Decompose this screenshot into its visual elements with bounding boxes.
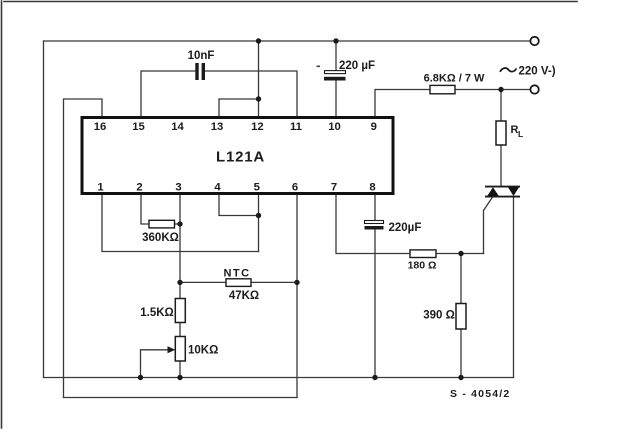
wire 10nF to pin11 <box>205 71 297 117</box>
wire pin9 to R2 and mains terminal <box>375 90 530 118</box>
wire top border of figure <box>4 1 577 3</box>
node pot bottom to bottom rail <box>177 375 182 380</box>
capacitor C2 polarity mark <box>317 66 321 68</box>
svg-text:9: 9 <box>371 121 377 133</box>
svg-text:10nF: 10nF <box>188 50 215 62</box>
node pin8 to bottom rail <box>372 375 377 380</box>
svg-text:S - 4054/2: S - 4054/2 <box>450 388 510 400</box>
triac Q1 bottom bar <box>485 196 520 198</box>
svg-text:15: 15 <box>132 121 145 133</box>
svg-text:47KΩ: 47KΩ <box>229 290 259 302</box>
node NTC right junction <box>294 280 299 285</box>
svg-text:220 V-): 220 V-) <box>519 66 556 78</box>
svg-text:6.8KΩ / 7 W: 6.8KΩ / 7 W <box>424 73 485 85</box>
svg-text:220 µF: 220 µF <box>339 60 375 72</box>
wire pin2 to 360K <box>141 193 149 224</box>
svg-text:L121A: L121A <box>216 149 265 166</box>
mains terminal upper circle <box>530 37 538 45</box>
wire NTC left <box>180 281 226 283</box>
svg-text:16: 16 <box>94 121 107 133</box>
svg-text:10: 10 <box>328 121 341 133</box>
capacitor C3 220uF plates (bottom electrolytic) <box>365 221 384 230</box>
wire pin16 to lower rail 2 (left vertical) <box>64 99 103 398</box>
mains voltage tilde symbol <box>500 68 517 72</box>
node 360K to pin3 <box>177 221 182 226</box>
wire pin8 through C3 to bottom rail <box>374 193 376 378</box>
resistor R1 360K body <box>149 220 175 228</box>
svg-text:1.5KΩ: 1.5KΩ <box>140 307 174 319</box>
wire pin1 to pin5 junction <box>102 193 259 252</box>
svg-text:7: 7 <box>331 182 337 194</box>
svg-text:390 Ω: 390 Ω <box>423 310 455 322</box>
wire pin6 vertical to rail 2 <box>296 193 298 398</box>
wire left outer vertical (top rail to bottom rail) <box>43 41 45 378</box>
wire pin4 bracket to pin5 <box>219 193 259 216</box>
resistor R5 180 ohm body <box>410 250 436 258</box>
wire triac gate <box>484 197 493 254</box>
triac Q1 top bar <box>485 186 520 188</box>
capacitor C1 10nF plates <box>195 63 205 80</box>
wire NTC right to pin6 column <box>251 281 297 283</box>
wire bottom rail 2 <box>64 397 298 399</box>
svg-text:11: 11 <box>290 121 302 133</box>
thermistor R4 NTC body <box>226 279 251 287</box>
wire potentiometer wiper <box>141 350 170 378</box>
resistor RL body <box>496 121 506 145</box>
wire pin3 vertical chain <box>179 193 181 378</box>
wire pin5 down <box>258 193 260 252</box>
wire RL branch down <box>500 90 502 187</box>
triac Q1 right triangle <box>508 187 519 196</box>
svg-text:220µF: 220µF <box>389 222 422 234</box>
potentiometer P1 wiper arrowhead <box>168 346 176 353</box>
svg-text:360KΩ: 360KΩ <box>142 232 179 244</box>
node NTC left junction <box>177 280 182 285</box>
svg-text:12: 12 <box>251 121 264 133</box>
potentiometer P1 10K body <box>175 337 185 362</box>
node pin13-pin12 junction <box>256 96 261 101</box>
capacitor C2 220uF plates (top electrolytic) <box>324 71 346 81</box>
wire pin15 up to 10nF <box>141 71 195 117</box>
svg-text:5: 5 <box>254 182 260 194</box>
node wiper to bottom rail <box>138 375 143 380</box>
wire pin13 bracket to pin12 <box>219 99 259 117</box>
svg-text:10KΩ: 10KΩ <box>188 345 218 357</box>
svg-text:8: 8 <box>369 182 375 194</box>
svg-text:3: 3 <box>175 182 181 194</box>
svg-text:4: 4 <box>214 182 221 194</box>
node pin4-pin5 junction <box>256 213 261 218</box>
wire mains top rail <box>44 40 531 42</box>
svg-text:NTC: NTC <box>223 268 250 280</box>
resistor R3 1.5K body <box>175 299 185 323</box>
svg-text:L: L <box>518 129 523 139</box>
wire 390 ohm branch <box>460 254 462 378</box>
mains terminal lower circle <box>530 85 538 93</box>
node pin12 top rail junction <box>256 38 261 43</box>
svg-text:1: 1 <box>97 182 103 194</box>
node gate junction <box>458 251 463 256</box>
svg-text:2: 2 <box>136 182 142 194</box>
wire 360K to pin3 column <box>175 223 181 225</box>
svg-text:14: 14 <box>171 121 184 133</box>
wire pin7 to R5 and gate junction <box>336 193 484 254</box>
wire pin12 to top rail <box>258 41 260 117</box>
triac Q1 left triangle <box>487 187 499 196</box>
svg-text:180 Ω: 180 Ω <box>408 260 437 272</box>
wire pin10 to C2 and top rail <box>335 41 337 117</box>
resistor R2 6.8K 7W body <box>430 85 455 93</box>
IC U1 body L121A <box>82 118 393 194</box>
wire triac bottom lead <box>513 197 515 378</box>
node 390 ohm to bottom rail <box>458 375 463 380</box>
svg-text:6: 6 <box>292 182 298 194</box>
wire left border of figure <box>1 1 3 428</box>
wire bottom rail 1 <box>44 377 514 379</box>
node pin10 top rail junction <box>333 38 338 43</box>
svg-text:13: 13 <box>211 121 224 133</box>
node mains terminal junction <box>498 87 503 92</box>
resistor R6 390 ohm body <box>456 304 466 330</box>
